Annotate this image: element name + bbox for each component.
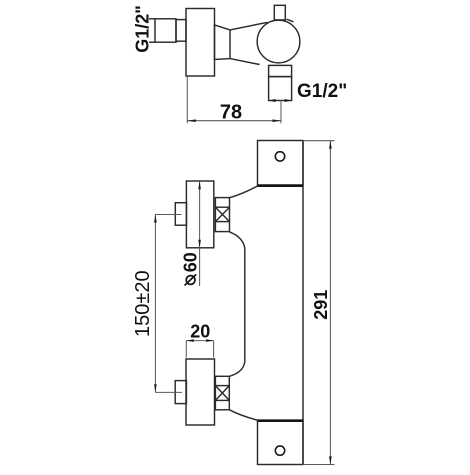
cone top edge	[230, 22, 268, 30]
top hatch divider lower	[215, 221, 229, 223]
cone bottom edge	[230, 59, 260, 65]
dimension 20 ext left	[185, 341, 187, 358]
dimension 150±20 ext top	[155, 214, 181, 216]
bottom mounting bracket	[258, 420, 304, 464]
dimension d60 line	[199, 181, 201, 286]
dimension 78 line	[187, 120, 281, 122]
bottom bracket thick top edge	[258, 419, 304, 422]
dimension d60 arrow up	[198, 181, 201, 189]
top bracket screw hole	[275, 152, 284, 161]
svg-text:291: 291	[311, 290, 331, 320]
inlet thread tick bottom	[149, 41, 155, 43]
dimension 291 ext top	[303, 140, 335, 142]
outlet G1/2 dim arrow right	[285, 99, 292, 102]
top flare curve	[230, 186, 258, 198]
bottom hatch cross	[215, 386, 229, 401]
dimension 150±20 arrow up	[154, 215, 157, 223]
svg-text:20: 20	[190, 321, 210, 341]
inlet thread tick top	[149, 18, 155, 20]
bottom hatch divider lower	[215, 399, 229, 401]
dimension 78 arrow right	[273, 119, 282, 122]
dimension 20 arrow right	[206, 339, 214, 342]
dimension 20 ext right	[213, 341, 215, 358]
dimension 291 arrow down	[329, 456, 332, 464]
bottom hatch divider upper	[215, 385, 229, 387]
dimension 291 ext bottom	[303, 464, 335, 466]
bottom handle knob	[186, 359, 215, 425]
neck between block and cone	[215, 25, 231, 60]
svg-text:150±20: 150±20	[132, 270, 154, 337]
dimension 291 arrow up	[329, 141, 332, 149]
dimension 20 arrow left	[186, 339, 194, 342]
inlet collar	[176, 20, 186, 42]
valve ball (circle)	[257, 20, 300, 63]
bottom flare curve	[229, 410, 257, 420]
top connector hatch box	[215, 198, 229, 232]
dimension 78 extension left	[186, 77, 188, 123]
dimension 150±20 ext bottom	[155, 391, 182, 393]
outlet lower thread	[269, 77, 292, 101]
body right edge	[302, 141, 304, 465]
svg-text:78: 78	[220, 102, 242, 124]
outlet upper collar	[269, 65, 292, 76]
dimension 78 arrow left	[187, 119, 196, 122]
inlet thread nipple	[155, 19, 176, 42]
dimension 150±20 line	[154, 214, 156, 392]
dimension 78 extension right	[280, 101, 282, 124]
dimension 20 line	[186, 340, 213, 342]
svg-text:G1/2": G1/2"	[133, 5, 153, 53]
top handle knob	[186, 181, 213, 248]
top bracket thick bottom edge	[258, 184, 304, 187]
bottom handle cap	[175, 381, 186, 404]
top mounting bracket	[258, 141, 304, 186]
bottom connector hatch box	[215, 376, 229, 410]
body neck left outline	[229, 232, 244, 376]
outlet G1/2 dim arrow left	[269, 99, 276, 102]
svg-text:G1/2": G1/2"	[297, 81, 347, 102]
dimension 291 line	[329, 141, 331, 465]
diverter knob on top	[274, 5, 285, 20]
top handle cap	[175, 203, 186, 226]
top hatch cross	[215, 207, 229, 221]
dimension 150±20 arrow down	[154, 384, 157, 392]
bottom bracket screw hole	[275, 446, 284, 455]
top hatch divider upper	[215, 206, 229, 208]
label d60 diameter symbol	[186, 276, 195, 285]
svg-text:60: 60	[181, 252, 201, 272]
small lever tick right of knob	[287, 19, 294, 22]
body block (handle, side view)	[186, 9, 215, 77]
dimension d60 arrow down	[198, 240, 201, 248]
